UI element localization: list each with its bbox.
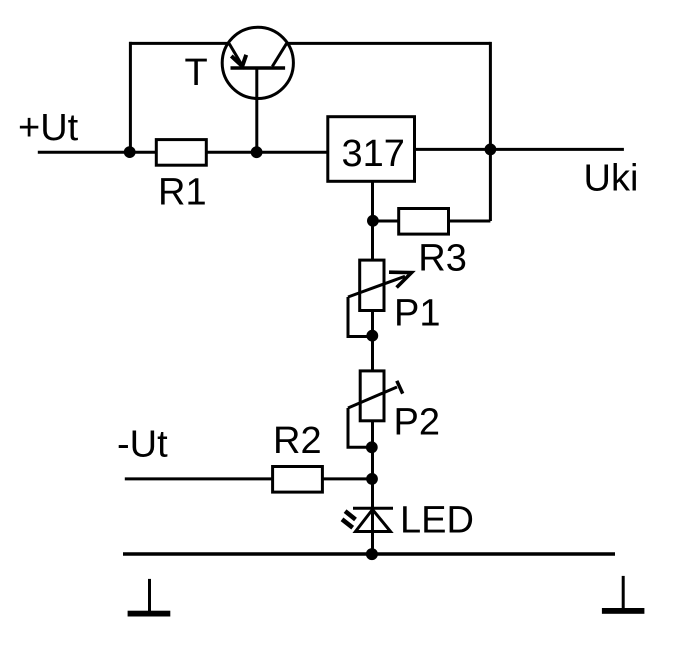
wire ground rail: [123, 552, 615, 555]
resistor R2: [273, 467, 323, 493]
svg-text:T: T: [185, 52, 208, 94]
svg-text:R3: R3: [418, 237, 467, 279]
transistor T: [222, 27, 293, 99]
wire -Ut to R2 to node: [125, 477, 373, 480]
regulator U1 317: [328, 117, 415, 182]
ground left: [128, 579, 171, 617]
svg-text:-Ut: -Ut: [117, 424, 168, 466]
wire +Ut main horizontal: [38, 151, 328, 154]
node E (P1 wiper junction): [366, 330, 378, 342]
node G (R2 junction): [366, 473, 378, 485]
LED D1: [342, 508, 393, 531]
wire left vertical: [129, 42, 132, 152]
node H (ground rail junction): [366, 548, 378, 560]
ground right: [602, 576, 645, 614]
node F (P2 wiper junction): [366, 441, 378, 453]
svg-text:R2: R2: [273, 420, 322, 462]
svg-text:P2: P2: [394, 401, 440, 443]
svg-text:LED: LED: [400, 499, 474, 541]
wire right vertical: [489, 42, 492, 221]
wire transistor base vertical: [255, 66, 258, 152]
svg-text:Uki: Uki: [584, 158, 639, 200]
potentiometer P2: [348, 371, 403, 447]
node C (output junction): [485, 144, 497, 156]
svg-text:+Ut: +Ut: [18, 107, 79, 149]
node A (+Ut / left vertical): [124, 146, 136, 158]
resistor R1: [156, 140, 206, 166]
node D (adj junction): [367, 215, 379, 227]
node B (base junction): [251, 146, 263, 158]
wire 317 adj vertical chain: [371, 181, 374, 554]
wire 317 output to Uki: [414, 148, 624, 151]
wire R3 horizontal: [373, 220, 491, 223]
svg-text:317: 317: [342, 133, 405, 175]
resistor R3: [399, 209, 449, 235]
svg-text:R1: R1: [158, 172, 207, 214]
svg-text:P1: P1: [394, 293, 440, 335]
potentiometer P1: [348, 260, 412, 336]
wire top horizontal: [129, 42, 490, 45]
